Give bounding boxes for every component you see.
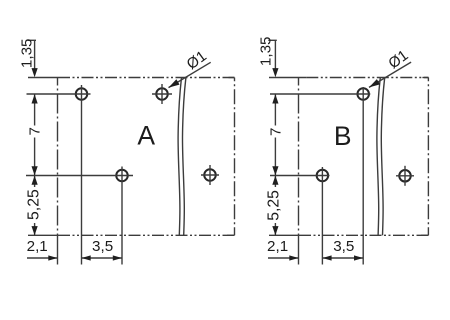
svg-text:5,25: 5,25 — [26, 189, 43, 220]
dim B 5,25 line + arrows — [272, 176, 278, 236]
leader arrow diameter B — [369, 62, 411, 87]
hole A3 bottom (circle + lines) — [26, 167, 133, 265]
dim B 1,35 line + tick — [268, 40, 278, 77]
panel A right chain line — [234, 78, 236, 236]
panel A top edge chain line — [28, 77, 235, 79]
dim B 7 line + arrows — [272, 94, 278, 175]
dim B 2,1 bottom — [268, 255, 299, 260]
dim B 3,5 bottom — [322, 255, 363, 260]
svg-text:3,5: 3,5 — [333, 238, 354, 255]
hole A4 beyond break with crosshair — [201, 165, 219, 185]
svg-text:2,1: 2,1 — [267, 238, 288, 255]
svg-text:3,5: 3,5 — [92, 238, 113, 255]
dim A 2,1 bottom — [27, 255, 58, 260]
hole B3 beyond break with crosshair — [396, 166, 414, 186]
leader arrow diameter A — [169, 62, 211, 87]
svg-text:7: 7 — [268, 128, 285, 136]
svg-text:7: 7 — [26, 127, 43, 135]
hole B2 bottom (circle + lines) — [270, 167, 330, 265]
dim A 3,5 bottom — [82, 255, 123, 260]
dim A 1,35 line + tick — [28, 40, 38, 77]
panel B 2.1mm offset chain line — [298, 78, 300, 265]
panel B bottom edge chain line — [269, 234, 429, 236]
panel B wavy break line — [377, 78, 385, 236]
svg-text:Ø1: Ø1 — [184, 48, 210, 74]
svg-text:2,1: 2,1 — [27, 238, 48, 255]
dim A 7 line + arrows — [32, 94, 38, 175]
panel A wavy break line — [178, 78, 186, 236]
hole A2 top-second with crosshair — [152, 84, 172, 104]
svg-text:Ø1: Ø1 — [385, 47, 411, 73]
panel A 2.1mm offset chain line — [57, 78, 59, 265]
dim A 5,25 line + arrows — [32, 176, 38, 236]
svg-text:A: A — [137, 121, 155, 151]
panel B right chain line — [427, 78, 429, 236]
svg-text:1,35: 1,35 — [257, 37, 274, 67]
hole B1 top (circle + lines) — [270, 87, 370, 265]
panel A bottom edge chain line — [28, 234, 235, 236]
svg-text:1,35: 1,35 — [18, 39, 35, 69]
svg-text:5,25: 5,25 — [266, 190, 283, 221]
panel B top edge chain line — [269, 77, 429, 79]
hole A1 top-left (circle + lines) — [27, 85, 91, 265]
svg-text:B: B — [334, 121, 352, 151]
